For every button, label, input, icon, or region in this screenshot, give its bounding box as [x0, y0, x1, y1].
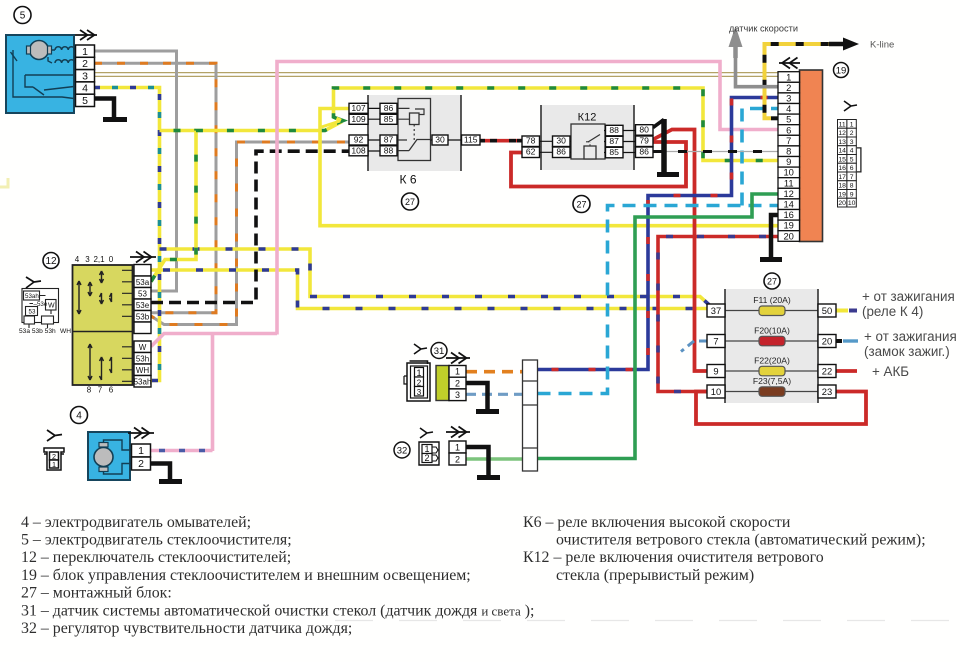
item31 pin numbers	[416, 367, 460, 400]
svg-text:30: 30	[435, 135, 445, 145]
svg-text:85: 85	[609, 147, 619, 157]
svg-text:80: 80	[639, 124, 649, 134]
Y symbol 31	[414, 344, 427, 354]
wire fuse 23 red loop to fuse 10	[696, 392, 866, 425]
wire K12 86 to block19 pin8 (thin w/ black dash)	[653, 151, 778, 153]
wire strip to block19 pin12 (green)	[538, 194, 779, 459]
svg-text:11: 11	[784, 177, 794, 188]
svg-text:1: 1	[416, 368, 421, 378]
svg-text:27: 27	[576, 199, 586, 209]
svg-text:12 – переключатель стеклоочист: 12 – переключатель стеклоочистителей;	[21, 549, 291, 566]
svg-text:50: 50	[822, 305, 832, 316]
svg-text:15: 15	[838, 157, 846, 164]
svg-text:6: 6	[786, 124, 791, 135]
wire K6 net to block19 pin9 (yellow/green)	[334, 88, 779, 161]
switch 12 pin connector	[134, 265, 151, 388]
connector strip X	[523, 360, 538, 471]
svg-text:5: 5	[82, 95, 88, 107]
K12 relay block	[541, 105, 634, 170]
wire fuse 20 stub (steel blue)	[836, 339, 842, 343]
wire K6 107 junction to block19 pin19 (yellow)	[320, 109, 778, 226]
switch pin labels	[134, 278, 152, 387]
svg-text:4: 4	[82, 83, 88, 95]
block19 pin numbers	[783, 71, 793, 241]
svg-text:53ah: 53ah	[134, 378, 152, 387]
svg-text:3: 3	[85, 255, 90, 264]
Y symbol switch	[26, 277, 41, 288]
svg-text:12: 12	[783, 188, 793, 199]
wire block19 pin16 ground	[771, 215, 778, 257]
svg-text:датчик скорости: датчик скорости	[729, 24, 798, 34]
wire K6 115 to K12 78 (red/black)	[480, 139, 522, 143]
svg-text:11: 11	[839, 122, 846, 129]
item 32 regulator	[419, 441, 466, 465]
svg-text:115: 115	[464, 135, 478, 145]
wire motor5 pin3 to block19 pin1 (thin olive pair)	[94, 73, 781, 77]
svg-text:5: 5	[786, 114, 791, 125]
fuse block 27	[725, 289, 818, 403]
wire item32 pin1 ground	[466, 447, 489, 475]
svg-text:+ АКБ: + АКБ	[872, 364, 909, 379]
svg-text:3: 3	[786, 93, 791, 104]
svg-text:3: 3	[850, 139, 854, 146]
svg-text:92: 92	[354, 135, 364, 145]
svg-text:1: 1	[138, 445, 144, 457]
fuse pin labels	[711, 305, 832, 397]
wire K6 92 to switch 53b (gray/orange)	[151, 142, 350, 325]
arrow symbol 31	[446, 353, 470, 364]
fuse names	[753, 295, 791, 386]
washer motor 4	[88, 432, 131, 480]
wire switch top pin to fuse 37 (yellow/navy)	[151, 270, 707, 309]
Y symbol block19	[844, 101, 857, 111]
svg-text:86: 86	[556, 147, 566, 157]
svg-text:К12: К12	[578, 112, 597, 124]
svg-text:32 – регулятор чувствительност: 32 – регулятор чувствительности датчика …	[21, 620, 352, 637]
wire fuse 50 stub (yellow/navy)	[836, 309, 848, 313]
svg-text:W: W	[139, 343, 147, 352]
svg-text:31: 31	[434, 346, 445, 357]
svg-text:стекла (прерывистый режим): стекла (прерывистый режим)	[556, 567, 754, 584]
svg-text:7: 7	[850, 174, 854, 181]
K12 pin labels	[526, 124, 649, 157]
wire fuse 7 stub (steel dashed)	[681, 341, 707, 352]
arrow symbol 32	[446, 427, 470, 438]
svg-text:10: 10	[783, 167, 793, 178]
motor5 pin numbers	[82, 46, 88, 107]
svg-text:–53e: –53e	[34, 301, 48, 308]
svg-text:+ от зажигания: + от зажигания	[864, 329, 957, 344]
wire K12 79 to fuse 9 (red)	[653, 130, 707, 372]
svg-text:53a: 53a	[136, 278, 150, 287]
wire motor5 pin2 to switch 53b (gray/orange)	[94, 63, 216, 312]
label circle 5	[14, 7, 31, 24]
wire washer pin2 ground	[151, 464, 170, 480]
faint artifact line bottom	[335, 620, 958, 622]
svg-text:9: 9	[850, 192, 854, 199]
faint stub left edge	[0, 178, 8, 187]
svg-text:4: 4	[76, 411, 82, 422]
label circle 27 of fuse block	[764, 273, 780, 289]
svg-text:87: 87	[384, 135, 394, 145]
svg-text:+ от зажигания: + от зажигания	[862, 289, 955, 304]
svg-text:86: 86	[384, 103, 394, 113]
svg-text:К6 – реле включения высокой ск: К6 – реле включения высокой скорости	[523, 514, 791, 531]
svg-text:109: 109	[351, 114, 366, 124]
svg-text:9: 9	[713, 365, 718, 376]
svg-text:85: 85	[384, 114, 394, 124]
svg-text:F11 (20A): F11 (20A)	[753, 295, 791, 305]
svg-text:7: 7	[713, 335, 718, 346]
svg-text:F20(10A): F20(10A)	[754, 325, 790, 335]
svg-text:27 – монтажный блок:: 27 – монтажный блок:	[21, 585, 172, 602]
svg-text:4: 4	[786, 103, 791, 114]
svg-text:88: 88	[384, 146, 394, 156]
arrow symbol switch	[130, 252, 156, 263]
svg-text:27: 27	[405, 197, 415, 207]
svg-text:16: 16	[783, 209, 793, 220]
switch 12 main box	[73, 265, 133, 385]
svg-text:6: 6	[850, 165, 854, 172]
svg-text:13: 13	[838, 139, 846, 146]
pin table of block19	[838, 120, 861, 208]
fuse F11 20A	[759, 306, 785, 316]
switch pin-layout inset	[22, 289, 59, 329]
wiper motor 5	[6, 35, 75, 113]
svg-text:2: 2	[138, 458, 144, 470]
washer pin numbers	[52, 445, 144, 470]
svg-text:19: 19	[836, 66, 847, 77]
svg-text:12: 12	[45, 256, 57, 267]
wire motor5 pin1 to switch 53 (gray)	[94, 51, 177, 291]
K6 pin labels	[351, 103, 477, 156]
arrow symbol block19 (left chevrons)	[779, 58, 800, 69]
svg-text:20: 20	[783, 230, 793, 241]
svg-text:2: 2	[455, 378, 460, 388]
svg-text:2,1: 2,1	[93, 255, 105, 264]
svg-text:8: 8	[87, 386, 92, 395]
svg-text:9: 9	[786, 156, 791, 167]
wire pink net washer/switch W/block19 pin6	[151, 62, 778, 452]
svg-text:7: 7	[786, 135, 791, 146]
svg-text:88: 88	[609, 125, 619, 135]
svg-text:10: 10	[848, 200, 856, 207]
svg-text:23: 23	[822, 386, 832, 397]
wire block19 pin20 to fuse 10 (red/navy)	[658, 237, 778, 392]
arrow symbol washer	[128, 428, 154, 439]
svg-text:5: 5	[850, 157, 854, 164]
wire K12 80 ground	[653, 120, 664, 128]
K-line arrow	[829, 42, 844, 47]
wire item31 pin1 orange dashed to strip	[466, 370, 523, 374]
svg-text:3: 3	[417, 388, 422, 397]
svg-text:3: 3	[82, 70, 88, 82]
svg-text:1: 1	[850, 122, 854, 129]
svg-text:2: 2	[455, 454, 460, 464]
svg-text:W: W	[48, 303, 55, 310]
wire K-line (yellow/black)	[765, 44, 830, 118]
svg-text:2: 2	[424, 453, 429, 463]
svg-text:K-line: K-line	[870, 40, 894, 51]
switch pin tick lines	[122, 270, 134, 381]
svg-text:31 – датчик системы автоматиче: 31 – датчик системы автоматической очист…	[21, 603, 534, 620]
svg-text:К 6: К 6	[400, 173, 417, 187]
washer plug symbol	[44, 448, 64, 470]
svg-text:2: 2	[786, 82, 791, 93]
wire strip to block19 pin14 and pin4 (cyan dashed)	[538, 206, 779, 394]
wire K12 62-79 red loop	[511, 142, 686, 187]
svg-text:1: 1	[455, 367, 460, 377]
svg-text:12: 12	[838, 130, 846, 137]
svg-text:19 – блок управления стеклоочи: 19 – блок управления стеклоочистителем и…	[21, 567, 471, 584]
svg-text:1: 1	[455, 442, 460, 452]
wire item31 pin3 steel dashed to strip	[466, 393, 523, 396]
svg-text:108: 108	[351, 146, 366, 156]
wire item31 pin2 ground	[466, 383, 488, 409]
svg-text:32: 32	[397, 446, 408, 457]
svg-text:F23(7,5A): F23(7,5A)	[753, 376, 791, 386]
pin table numbers	[838, 122, 855, 208]
svg-text:5 – электродвигатель стеклоочи: 5 – электродвигатель стеклоочистителя;	[21, 532, 292, 549]
label circle 27 of K12	[573, 196, 590, 213]
arrow symbol motor5	[75, 30, 97, 40]
svg-text:0: 0	[109, 255, 114, 264]
svg-text:86: 86	[639, 147, 649, 157]
svg-text:62: 62	[526, 147, 536, 157]
svg-text:53: 53	[138, 290, 147, 299]
wire item32 pin2 green to strip	[466, 457, 523, 461]
svg-text:4: 4	[75, 255, 80, 264]
label circle 27 of K6	[402, 193, 419, 210]
wire speed sensor gray to block19 pin2	[736, 44, 779, 87]
svg-text:17: 17	[838, 174, 846, 181]
wire motor5 pin4 to switch 53ah (yellow/blue)	[94, 88, 160, 381]
svg-text:37: 37	[711, 305, 721, 316]
svg-text:6: 6	[109, 386, 114, 395]
svg-text:очистителя ветрового стекла (а: очистителя ветрового стекла (автоматичес…	[556, 532, 926, 549]
svg-text:4: 4	[850, 148, 854, 155]
svg-text:18: 18	[838, 183, 846, 190]
svg-text:78: 78	[526, 136, 536, 146]
item32 pin numbers	[424, 442, 460, 464]
svg-text:WH: WH	[136, 366, 150, 375]
label circle 31	[431, 343, 447, 359]
svg-text:53b: 53b	[136, 313, 150, 322]
svg-text:20: 20	[838, 200, 846, 207]
wire branch motor5 pin4 to fuse 37 (yellow/navy)	[160, 249, 712, 307]
fuse right texts	[862, 289, 957, 379]
svg-text:30: 30	[556, 136, 566, 146]
Y symbol washer	[47, 430, 62, 441]
svg-text:27: 27	[767, 276, 777, 286]
legend	[21, 514, 926, 637]
wire fuse 22 stub +AKB (red)	[836, 369, 857, 373]
svg-text:1: 1	[82, 46, 88, 58]
svg-text:1: 1	[786, 71, 791, 82]
svg-text:7: 7	[98, 386, 103, 395]
wire switch 53a to K6 109 (yellow/green)	[151, 122, 342, 282]
plug symbol 31	[404, 361, 430, 401]
svg-text:2: 2	[82, 58, 88, 70]
motor5 pin connector	[76, 45, 95, 107]
switch inset labels	[25, 293, 55, 316]
svg-text:F22(20A): F22(20A)	[754, 355, 790, 365]
wire motor5 pin5 ground	[94, 99, 114, 118]
label circle 12	[43, 253, 59, 269]
K6 relay block	[368, 95, 461, 171]
svg-text:4 – электродвигатель омывателе: 4 – электродвигатель омывателей;	[21, 514, 251, 531]
svg-text:2: 2	[850, 130, 854, 137]
svg-text:К12 – реле включения очистител: К12 – реле включения очистителя ветровог…	[523, 549, 824, 566]
svg-text:20: 20	[822, 335, 832, 346]
svg-text:19: 19	[838, 192, 846, 199]
svg-text:14: 14	[783, 199, 793, 210]
svg-text:16: 16	[838, 165, 846, 172]
fuse F20 10A	[759, 336, 785, 346]
Y symbol 32	[420, 428, 433, 438]
svg-text:2: 2	[417, 379, 422, 388]
label circle 19	[834, 63, 849, 78]
svg-text:53a 53b 53h: 53a 53b 53h	[19, 328, 56, 335]
svg-text:53ah: 53ah	[25, 293, 39, 300]
svg-text:19: 19	[783, 220, 793, 231]
switch position numbers	[75, 255, 114, 395]
svg-text:3: 3	[455, 390, 460, 400]
svg-text:10: 10	[711, 386, 721, 397]
label circle 32	[394, 442, 410, 458]
svg-text:8: 8	[850, 183, 854, 190]
fuse F23 7.5A	[759, 387, 785, 397]
svg-text:(реле К 4): (реле К 4)	[862, 304, 923, 319]
item 31 rain sensor	[404, 361, 466, 401]
svg-text:22: 22	[822, 365, 832, 376]
svg-text:79: 79	[639, 136, 649, 146]
node arrow into K6 109	[337, 117, 348, 126]
wire strip to block19 pin3 (navy/red)	[538, 98, 779, 370]
svg-text:53: 53	[29, 309, 36, 316]
svg-text:WH: WH	[60, 328, 71, 335]
svg-text:107: 107	[351, 103, 366, 113]
label circle 4	[71, 407, 88, 424]
svg-text:53h: 53h	[136, 355, 149, 364]
fuse F22 20A	[759, 366, 785, 376]
wire washer pin1 pink w/ blue dash	[151, 449, 213, 453]
svg-text:14: 14	[838, 148, 846, 155]
svg-text:8: 8	[786, 146, 791, 157]
svg-text:1: 1	[52, 460, 56, 469]
svg-text:5: 5	[20, 11, 26, 22]
svg-text:(замок зажиг.): (замок зажиг.)	[864, 344, 950, 359]
speed sensor arrow	[733, 42, 738, 58]
block 19 connector	[778, 70, 823, 242]
svg-text:53e: 53e	[136, 301, 150, 310]
wire switch 53e to K6 108 (black dashed)	[151, 151, 350, 302]
svg-text:87: 87	[609, 136, 619, 146]
